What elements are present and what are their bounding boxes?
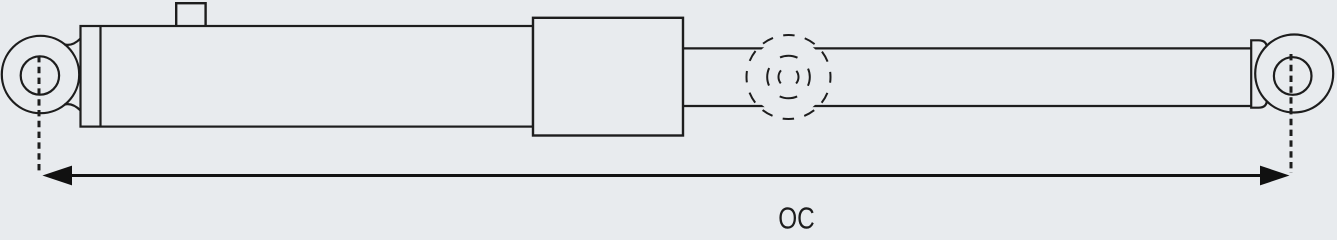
left eye inner circle [21,56,59,94]
arrowhead right [1260,166,1290,186]
barrel cap line [99,26,101,127]
phantom circle middle [767,56,810,99]
right eye outer circle [1255,35,1333,113]
right eye inner circle [1274,57,1312,95]
right centerline dashed [1290,54,1293,173]
weld fillet top [65,39,81,45]
phantom joint mask [750,39,827,116]
left centerline dashed [38,56,41,173]
arrowhead left [42,166,72,186]
rod end clevis tab [1251,40,1267,107]
wire piston rod top line [681,47,1252,49]
left eye outer circle [2,36,79,113]
weld fillet bottom [65,104,81,110]
gland block [533,18,683,136]
phantom circle outer [747,35,831,119]
phantom circle inner [779,67,799,87]
port boss on barrel top [176,3,205,26]
dimension line OC [68,174,1264,177]
svg-text:OC: OC [778,201,815,231]
wire piston rod bottom line [681,105,1252,107]
cylinder barrel [81,26,534,127]
